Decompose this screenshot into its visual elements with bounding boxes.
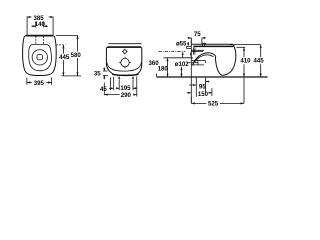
- plan top thick edge: [107, 46, 141, 48]
- svg-text:445: 445: [59, 54, 70, 61]
- dim 290: [103, 83, 105, 96]
- svg-text:410: 410: [240, 58, 251, 65]
- svg-text:445: 445: [254, 58, 265, 65]
- dim 445 vertical: [56, 44, 65, 46]
- svg-text:140: 140: [35, 21, 46, 28]
- inlet circle: [123, 50, 126, 53]
- inlet stub: [187, 46, 192, 48]
- small up arrows at line A: [182, 52, 192, 55]
- bowl circle: [32, 50, 47, 65]
- dim 35 plan left: [103, 71, 108, 75]
- bumper marks: [118, 76, 134, 79]
- dim 445 side: [230, 44, 261, 46]
- svg-text:ø55: ø55: [176, 41, 187, 48]
- svg-text:580: 580: [71, 52, 82, 59]
- outlet circle: [121, 58, 129, 66]
- wall bracket: [193, 47, 195, 54]
- inner ceramic front arc: [107, 62, 142, 71]
- dim 195 arrows: [116, 87, 136, 89]
- plan body: [106, 47, 141, 75]
- dim o55 leader: [187, 42, 189, 45]
- wall line: [108, 43, 141, 45]
- dim 140: [36, 22, 44, 28]
- svg-text:45: 45: [100, 86, 107, 93]
- svg-text:395: 395: [34, 80, 45, 87]
- ref line A: [159, 51, 186, 53]
- inner trap line: [195, 55, 213, 62]
- hidden inlet dashes: [36, 36, 44, 44]
- dim 150: [211, 88, 213, 96]
- dim 410: [236, 46, 245, 48]
- seat thick line: [194, 45, 234, 47]
- dim 95: [196, 78, 205, 97]
- inlet channel hidden: [191, 50, 204, 51]
- floor ref line front: [62, 75, 82, 77]
- seat hinge: [202, 43, 206, 46]
- svg-text:35: 35: [94, 70, 101, 77]
- dim 385: [27, 17, 53, 36]
- dim 45 arrow: [109, 87, 113, 89]
- seat ring: [29, 44, 52, 70]
- svg-text:75: 75: [194, 31, 201, 38]
- body outline: [23, 36, 57, 76]
- dim 360: [167, 58, 169, 77]
- outlet pipe: [191, 60, 205, 65]
- svg-text:525: 525: [208, 100, 219, 107]
- o102 arrow: [188, 62, 190, 64]
- plan bottom thick edge: [112, 74, 138, 75]
- seat top thick edge: [26, 35, 53, 37]
- svg-text:180: 180: [158, 66, 169, 73]
- svg-text:150: 150: [198, 91, 209, 98]
- dim 525: [191, 78, 244, 104]
- dim 395: [27, 78, 52, 85]
- svg-text:ø102: ø102: [175, 61, 190, 68]
- toilet profile: [191, 44, 235, 75]
- ref line B: [164, 57, 194, 59]
- drain square: [37, 55, 43, 60]
- dim 180: [180, 67, 182, 77]
- dim 75: [191, 38, 202, 44]
- svg-text:195: 195: [120, 85, 131, 92]
- svg-text:95: 95: [199, 83, 206, 90]
- dim 580 vertical: [56, 34, 78, 36]
- ext lines below plan: [111, 77, 114, 91]
- svg-text:290: 290: [121, 92, 132, 99]
- wall line: [190, 38, 192, 103]
- floor line side: [157, 76, 268, 78]
